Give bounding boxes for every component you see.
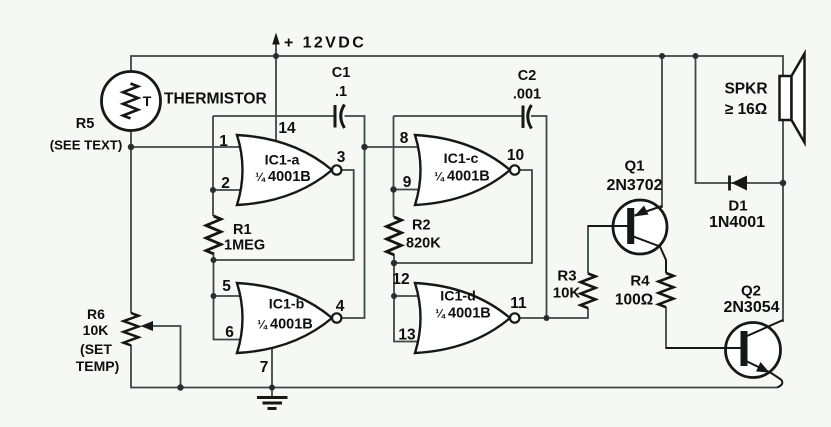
svg-text:2N3054: 2N3054 — [723, 299, 779, 316]
svg-text:9: 9 — [403, 174, 412, 191]
svg-text:R6: R6 — [87, 306, 105, 322]
svg-text:4: 4 — [336, 298, 345, 315]
svg-text:100Ω: 100Ω — [615, 292, 653, 309]
svg-text:3: 3 — [337, 149, 346, 166]
svg-text:2: 2 — [221, 175, 230, 192]
svg-text:12: 12 — [392, 271, 409, 288]
svg-text:THERMISTOR: THERMISTOR — [164, 91, 267, 108]
svg-text:IC1-c: IC1-c — [444, 151, 479, 167]
svg-text:11: 11 — [510, 295, 527, 312]
svg-text:R3: R3 — [557, 268, 576, 285]
svg-text:10K: 10K — [83, 322, 109, 338]
svg-text:TEMP): TEMP) — [76, 358, 120, 374]
svg-text:1N4001: 1N4001 — [709, 214, 765, 231]
svg-text:IC1-a: IC1-a — [265, 153, 300, 169]
svg-text:10K: 10K — [553, 285, 581, 302]
svg-text:IC1-d: IC1-d — [440, 289, 475, 305]
svg-text:C2: C2 — [518, 68, 537, 84]
svg-text:R4: R4 — [630, 273, 650, 290]
svg-text:SPKR: SPKR — [724, 81, 767, 98]
svg-text:T: T — [143, 93, 152, 109]
svg-text:8: 8 — [400, 130, 409, 147]
svg-text:820K: 820K — [406, 236, 441, 252]
svg-text:¼ 4001B: ¼ 4001B — [435, 306, 491, 322]
svg-text:6: 6 — [225, 324, 234, 341]
svg-text:≥ 16Ω: ≥ 16Ω — [725, 101, 767, 118]
svg-text:.001: .001 — [513, 87, 541, 103]
svg-text:2N3702: 2N3702 — [606, 177, 662, 194]
svg-text:D1: D1 — [728, 198, 747, 215]
svg-text:Q2: Q2 — [741, 283, 761, 300]
svg-text:Q1: Q1 — [624, 158, 644, 175]
svg-text:1MEG: 1MEG — [224, 238, 265, 254]
svg-text:14: 14 — [278, 120, 296, 137]
svg-text:13: 13 — [398, 327, 416, 344]
svg-text:(SET: (SET — [80, 341, 112, 357]
svg-text:+ 12VDC: + 12VDC — [284, 35, 366, 52]
svg-text:(SEE TEXT): (SEE TEXT) — [50, 138, 123, 153]
svg-text:5: 5 — [222, 278, 231, 295]
svg-text:R1: R1 — [233, 222, 252, 238]
svg-text:10: 10 — [507, 147, 524, 164]
svg-text:.1: .1 — [335, 84, 347, 100]
svg-text:¼ 4001B: ¼ 4001B — [255, 169, 311, 185]
svg-text:IC1-b: IC1-b — [269, 297, 305, 313]
svg-text:7: 7 — [260, 359, 269, 376]
svg-text:¼ 4001B: ¼ 4001B — [257, 317, 313, 333]
svg-text:1: 1 — [219, 133, 228, 150]
svg-text:C1: C1 — [332, 65, 351, 81]
svg-text:¼ 4001B: ¼ 4001B — [434, 169, 490, 185]
svg-text:R2: R2 — [412, 218, 431, 234]
svg-text:R5: R5 — [76, 116, 95, 132]
